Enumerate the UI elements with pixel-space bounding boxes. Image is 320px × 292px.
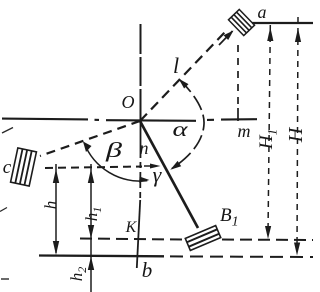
- svg-text:h: h: [41, 201, 60, 210]
- dimension line h: [53, 164, 59, 255]
- svg-text:b: b: [142, 258, 153, 282]
- wire: dashed ray O to mirror a: [140, 31, 226, 121]
- mirror B1: [185, 226, 220, 251]
- arrow gamma: short arrow to steep line: [144, 164, 161, 169]
- wire: horizontal dash-dot optical axis through O: [2, 119, 257, 121]
- arrowhead alpha bottom: [170, 161, 181, 170]
- speck marks (scan artifacts): [2, 128, 13, 134]
- wire: vertical line through O (up): [140, 24, 142, 121]
- wire: top-right horizontal line at level of mirror a: [252, 22, 313, 24]
- arc beta: [84, 143, 147, 182]
- dimension line h1 / h2 (shared vertical): [88, 164, 94, 292]
- arrowhead alpha top: [179, 79, 189, 89]
- arrowhead of ray at mirror a: [219, 31, 234, 46]
- wire: vertical line through O down to b: [140, 121, 142, 152]
- arc alpha: [172, 80, 204, 169]
- svg-text:α: α: [173, 117, 189, 141]
- arrowhead beta left: [83, 142, 92, 153]
- mirror a: [228, 9, 254, 35]
- wire: ground line (solid then dashed): [39, 254, 164, 257]
- svg-text:n: n: [140, 138, 149, 158]
- dimension line H1: [265, 25, 273, 239]
- svg-text:K: K: [125, 219, 138, 236]
- wire: solid ray O to mirror B1: [140, 121, 198, 228]
- svg-text:c: c: [3, 157, 12, 178]
- svg-text:H: H: [285, 126, 307, 143]
- svg-text:a: a: [258, 2, 267, 22]
- svg-text:β: β: [104, 138, 122, 162]
- svg-text:O: O: [122, 92, 135, 112]
- wire: dashed horizontal line from mirror c to vertical line: [45, 167, 142, 169]
- svg-text:m: m: [238, 121, 251, 141]
- arrowhead beta right: [139, 177, 150, 183]
- wire: dashed ray O to mirror c: [40, 121, 140, 156]
- svg-text:γ: γ: [153, 162, 163, 187]
- wire: dashed level line at K (y=239): [80, 239, 183, 240]
- svg-text:l: l: [173, 53, 179, 78]
- dimension line H: [294, 17, 301, 256]
- mirror c: [11, 148, 37, 186]
- wire: dashed vertical from mirror a down to m: [237, 45, 239, 108]
